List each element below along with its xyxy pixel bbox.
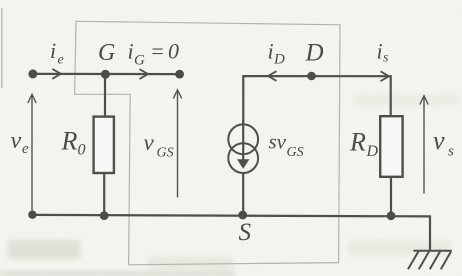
node dot: right end of iG wire bbox=[175, 70, 184, 79]
paper grain overlay bbox=[0, 0, 1, 1]
wire RD bottom to rail bbox=[390, 178, 392, 216]
resistor RD bbox=[380, 116, 402, 177]
scan bottom edge band bbox=[0, 271, 235, 276]
FET model boundary box (light gray, stepped outline) bbox=[75, 21, 340, 264]
resistor R0 bbox=[94, 117, 114, 173]
wire current source bottom to rail bbox=[242, 173, 244, 216]
voltage arrow vs (up) bbox=[420, 96, 428, 194]
voltage arrow vGS (up) bbox=[173, 90, 181, 198]
node dot: input terminal left top bbox=[28, 69, 37, 78]
node dot: RD bottom junction bbox=[387, 211, 396, 220]
current source arrow head (down) bbox=[237, 159, 249, 169]
current arrow iG (right) bbox=[140, 69, 149, 79]
current arrow iD (left) bbox=[268, 71, 277, 81]
wire top-right rail with corners bbox=[243, 76, 390, 125]
node D dot bbox=[307, 72, 316, 81]
ground symbol bbox=[408, 251, 452, 270]
scan left edge line bbox=[1, 8, 3, 88]
wire G down to R0 bbox=[104, 74, 106, 117]
current arrow ie (right) bbox=[52, 69, 61, 79]
wire bottom rail bbox=[33, 215, 430, 252]
scan bleed-through artifact bottom-right bbox=[348, 241, 450, 255]
scan bleed-through artifact mid-right bbox=[354, 94, 458, 106]
node dot: bottom-left terminal bbox=[28, 211, 36, 219]
scan bleed-through artifact bottom-center bbox=[148, 257, 233, 269]
node G dot bbox=[101, 70, 110, 79]
node S dot bbox=[238, 211, 247, 220]
controlled current source svGS (two overlapping circles) bbox=[228, 124, 258, 173]
scan bleed-through artifact bottom-left bbox=[8, 240, 80, 259]
wire top-left rail e to G to iG=0 end bbox=[33, 73, 180, 75]
wire current source internal drop bbox=[242, 120, 244, 161]
current arrow is (right) bbox=[381, 71, 390, 81]
voltage arrow ve (up) bbox=[28, 94, 36, 210]
node dot: R0 bottom junction bbox=[100, 211, 109, 220]
wire R0 bottom to rail bbox=[103, 173, 105, 216]
